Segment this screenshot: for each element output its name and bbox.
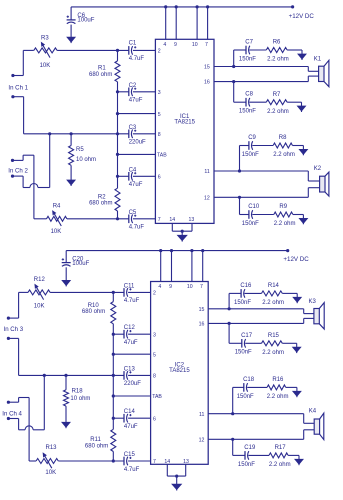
speaker K2 (320, 176, 325, 192)
pin 9 (IC1) (175, 7, 177, 39)
wire: C10 to R9 (252, 214, 273, 216)
wire: IC1 pin 16 to speaker K1 (214, 81, 308, 83)
svg-text:2.2 ohm: 2.2 ohm (262, 300, 284, 306)
node: rail junction pin4 (IC1) (164, 5, 167, 8)
terminal: In Ch 1 bottom (11, 95, 14, 98)
svg-text:R14: R14 (268, 283, 280, 289)
wire: IC2 pins 14,13 to ground (166, 464, 168, 476)
svg-text:8: 8 (153, 374, 156, 380)
svg-text:4.7uF: 4.7uF (124, 298, 140, 304)
wire: IC1 pin 15 to speaker K1 (214, 66, 308, 68)
svg-text:R17: R17 (275, 445, 287, 451)
node: bus junction C12 row (112, 333, 115, 336)
wire: K4 jog top (303, 414, 305, 424)
ground (C20) (62, 281, 70, 286)
wire: C18 branch (233, 386, 245, 388)
node: pin15/C7 junction (232, 65, 235, 68)
ground (R7) (298, 106, 306, 111)
wire: bus to IC1 pin 5 (118, 113, 156, 115)
ground (IC1) (178, 235, 187, 240)
svg-text:C12: C12 (124, 325, 136, 331)
wire: feedback bus (R1 to R2) (117, 82, 119, 188)
svg-text:680 ohm: 680 ohm (82, 309, 105, 315)
wire: C8 to R7 (249, 101, 266, 103)
svg-text:150nF: 150nF (234, 300, 251, 306)
capacitor C15 4.7uF (123, 457, 125, 466)
wire: In Ch 3 bottom to ground bus row (8, 337, 18, 339)
ground (R18) (62, 422, 70, 427)
wire: bus to IC2 TAB (113, 395, 150, 397)
wire: R6 to ground (287, 49, 302, 51)
resistor R8 2.2 ohm (273, 143, 292, 148)
svg-text:R5: R5 (76, 147, 84, 153)
svg-text:7: 7 (205, 42, 208, 48)
capacitor C14 47uF (123, 414, 125, 423)
wire: C12 row (113, 333, 124, 335)
wire: bus to IC1 TAB (118, 153, 156, 155)
resistor R5 10 ohm (70, 134, 72, 146)
svg-text:150nF: 150nF (242, 221, 259, 227)
terminal: In Ch 1 top (11, 74, 14, 77)
wire: C16 to R14 (245, 292, 262, 294)
node: bus junction pin5 row (IC2) (112, 353, 115, 356)
svg-text:TAB: TAB (157, 153, 167, 159)
svg-text:10K: 10K (40, 63, 51, 69)
wire: K1 jog bottom (307, 76, 309, 82)
capacitor C2 47uF (128, 88, 130, 97)
svg-text:TA8215: TA8215 (169, 368, 190, 374)
wire: R4 row to C5 (67, 218, 129, 220)
svg-text:15: 15 (204, 65, 210, 71)
potentiometer R12 10K (28, 290, 50, 295)
svg-text:3: 3 (153, 332, 156, 338)
resistor R1 680 ohm (117, 50, 119, 61)
capacitor C18 150nF (243, 383, 245, 392)
wire: R15 to ground (282, 342, 296, 344)
svg-text:100uF: 100uF (72, 261, 89, 267)
ground (C6) (67, 37, 75, 42)
node: rail junction pin10 (IC2) (190, 249, 193, 252)
svg-text:2.2 ohm: 2.2 ohm (267, 109, 289, 115)
wire: R14 to ground (282, 292, 297, 294)
pin 4 (IC1) (165, 7, 167, 39)
wire: R18 to ground (65, 406, 67, 422)
node: In Ch 4 return junction (43, 374, 46, 377)
svg-text:16: 16 (199, 322, 205, 328)
wire: R13 row to C15 (58, 460, 124, 462)
wire: junction up to C9 branch (239, 146, 241, 172)
svg-text:5: 5 (153, 352, 156, 358)
wire: C5 to IC1 pin 7 (133, 218, 156, 220)
wire: IC1 pins 14,13 to ground (171, 223, 173, 231)
svg-text:R4: R4 (53, 203, 61, 209)
wire: C20 to ground (65, 267, 67, 280)
svg-text:4.7uF: 4.7uF (129, 225, 145, 231)
wire: In Ch 4 signal to R13 (8, 401, 18, 403)
wire: C6 to ground (70, 25, 72, 38)
svg-text:+12V DC: +12V DC (289, 13, 315, 20)
potentiometer R4 10K (34, 218, 47, 220)
potentiometer R13 10K (29, 460, 36, 462)
svg-text:4.7uF: 4.7uF (124, 467, 140, 473)
wire: C17 branch (229, 342, 242, 344)
svg-text:10K: 10K (34, 304, 45, 310)
svg-text:C2: C2 (129, 83, 137, 89)
node: bus junction C15 row (112, 459, 115, 462)
svg-text:C17: C17 (241, 333, 253, 339)
svg-text:8: 8 (158, 132, 161, 138)
svg-text:C1: C1 (129, 41, 137, 47)
svg-text:In Ch 2: In Ch 2 (8, 167, 28, 174)
node: bus junction C13 row (112, 374, 115, 377)
svg-text:2: 2 (158, 49, 161, 55)
node: rail junction pin7 (IC1) (206, 5, 209, 8)
svg-text:K2: K2 (314, 166, 322, 172)
wire: C9 to R8 (252, 145, 273, 147)
node: IC2 ground bar (175, 475, 178, 478)
svg-text:R16: R16 (272, 377, 284, 383)
node: +12V terminal (top) (291, 5, 294, 8)
pin 10 (IC1) (196, 7, 198, 39)
svg-text:R1: R1 (98, 65, 106, 71)
svg-text:10: 10 (187, 284, 193, 290)
ground (R16) (293, 391, 301, 396)
wire: C14 row (113, 417, 124, 419)
svg-text:TAB: TAB (152, 394, 162, 400)
node: rail junction pin10 (IC1) (196, 5, 199, 8)
wire: C2 row (118, 91, 129, 93)
wire: R17 to ground (288, 454, 299, 456)
wire: C15 to IC2 pin 7 (128, 460, 151, 462)
node: R18 junction (64, 374, 67, 377)
capacitor C9 150nF (248, 141, 250, 150)
wire: In Ch 3 to R12 (8, 317, 18, 319)
svg-text:C9: C9 (248, 135, 256, 141)
capacitor C12 47uF (123, 330, 125, 339)
wire: +12V DC power rail (bottom) (66, 250, 288, 252)
ground (IC2) (172, 484, 181, 489)
svg-text:+12V DC: +12V DC (283, 256, 309, 263)
svg-text:C19: C19 (244, 445, 256, 451)
svg-text:C8: C8 (245, 92, 253, 98)
svg-text:C11: C11 (124, 283, 135, 289)
wire: C9 branch (240, 145, 250, 147)
svg-text:In Ch 1: In Ch 1 (8, 85, 28, 92)
ground (R5) (67, 180, 75, 185)
capacitor C10 150nF (248, 210, 250, 219)
wire: C4 row (118, 175, 129, 177)
wire: IC2 pin 11 to speaker K4 (208, 413, 304, 415)
wire: feedback bus (R10 to R11) (112, 324, 114, 430)
resistor R6 2.2 ohm (266, 48, 287, 53)
svg-text:C13: C13 (124, 366, 136, 372)
capacitor C16 150nF (240, 289, 242, 298)
svg-text:6: 6 (153, 416, 156, 422)
svg-text:11: 11 (204, 169, 209, 175)
svg-text:C18: C18 (243, 377, 255, 383)
capacitor C19 150nF (244, 451, 246, 460)
svg-text:2.2 ohm: 2.2 ohm (267, 57, 289, 63)
wire: junction down to C10 branch (239, 197, 241, 214)
svg-text:150nF: 150nF (235, 350, 252, 356)
svg-text:R7: R7 (273, 92, 281, 98)
svg-text:C4: C4 (129, 167, 137, 173)
node: rail junction pin9 (IC2) (170, 249, 173, 252)
wire: K3 jog top (303, 309, 305, 314)
wire: In Ch 2 return with crossover hop (13, 175, 24, 177)
svg-text:C5: C5 (129, 210, 137, 216)
svg-text:10: 10 (192, 42, 198, 48)
svg-text:K4: K4 (309, 409, 317, 415)
resistor R14 2.2 ohm (262, 291, 283, 296)
svg-text:150nF: 150nF (238, 462, 255, 468)
svg-text:13: 13 (183, 459, 189, 465)
node: R5 junction (70, 132, 73, 135)
node: bus junction C3 row (116, 132, 119, 135)
node: pin12/C10 junction (238, 196, 241, 199)
wire: junction down to C17 branch (228, 323, 230, 343)
wire: junction up to C7 branch (233, 50, 235, 67)
terminal: In Ch 2 top (11, 159, 14, 162)
capacitor C8 150nF (245, 98, 247, 107)
svg-text:2.2 ohm: 2.2 ohm (262, 350, 284, 356)
svg-text:10K: 10K (45, 470, 56, 476)
node: junction R1 top / pin2 row (116, 49, 119, 52)
wire: K2 jog bottom (307, 188, 309, 198)
svg-text:R6: R6 (273, 40, 281, 46)
svg-text:R8: R8 (279, 135, 287, 141)
capacitor C5 4.7uF (128, 215, 130, 224)
svg-text:47uF: 47uF (124, 340, 138, 346)
svg-text:10 ohm: 10 ohm (70, 396, 90, 402)
wire: C10 branch (240, 214, 250, 216)
wire: In Ch 4 return with crossover hop (8, 418, 18, 420)
svg-text:7: 7 (200, 284, 203, 290)
ground (R17) (295, 459, 303, 464)
svg-text:2.2 ohm: 2.2 ohm (273, 152, 295, 158)
svg-text:R12: R12 (34, 277, 46, 283)
wire: junction up to C16 branch (228, 293, 230, 308)
ground (R6) (298, 54, 306, 59)
svg-text:R9: R9 (279, 204, 287, 210)
wire: C13 to IC2 pin 8 (128, 374, 151, 376)
resistor R7 2.2 ohm (266, 100, 287, 105)
capacitor C11 4.7uF (123, 288, 125, 297)
resistor R15 2.2 ohm (262, 341, 283, 346)
svg-text:C7: C7 (245, 40, 253, 46)
wire: bus to IC2 pin 5 (113, 353, 150, 355)
terminal: In Ch 3 top (7, 317, 10, 320)
svg-text:R15: R15 (268, 333, 280, 339)
wire: C11 to IC2 pin 2 (128, 291, 151, 293)
node: +12V terminal (bottom) (286, 249, 289, 252)
terminal: In Ch 3 bottom (7, 337, 10, 340)
wire: junction up to C18 branch (232, 387, 234, 413)
svg-text:680 ohm: 680 ohm (85, 443, 108, 449)
svg-text:C16: C16 (240, 283, 252, 289)
ground (R15) (293, 347, 301, 352)
svg-text:R13: R13 (46, 445, 58, 451)
wire: K2 jog top (307, 171, 309, 181)
svg-text:150nF: 150nF (242, 152, 259, 158)
capacitor C20 100uF (65, 251, 67, 263)
svg-text:680 ohm: 680 ohm (89, 72, 112, 78)
svg-text:4: 4 (163, 42, 166, 48)
terminal: In Ch 4 top (7, 401, 10, 404)
wire: C1 to IC1 pin 2 (133, 49, 156, 51)
capacitor C1 4.7uF (128, 46, 130, 55)
svg-text:47uF: 47uF (129, 182, 143, 188)
svg-text:100uF: 100uF (77, 18, 94, 24)
node: bus junction C14 row (112, 417, 115, 420)
node: pin11/C9 junction (238, 169, 241, 172)
node: pin15/C16 junction (228, 307, 231, 310)
ground (R9) (300, 219, 308, 224)
op-amp IC2 TA8215 (151, 282, 209, 465)
resistor R18 10 ohm (65, 375, 67, 389)
pin 4 (IC2) (160, 251, 162, 282)
svg-text:7: 7 (153, 459, 156, 465)
svg-text:2: 2 (153, 291, 156, 297)
capacitor C3 220uF (128, 130, 130, 139)
svg-text:C3: C3 (129, 125, 137, 131)
svg-text:R18: R18 (72, 389, 84, 395)
wire: IC2 pin 16 to speaker K3 (208, 322, 304, 324)
wire: junction down to C19 branch (232, 439, 234, 455)
wire: R12 wiper row to C11 (50, 291, 124, 293)
node: bus junction C5 row (116, 217, 119, 220)
wire: R9 to ground (293, 214, 304, 216)
svg-text:In Ch 4: In Ch 4 (2, 411, 22, 418)
svg-text:6: 6 (158, 175, 161, 181)
node: rail junction pin9 (IC1) (175, 5, 178, 8)
wire: ground reference row (top half) to C3 (24, 133, 129, 135)
wire: IC2 pin 12 to speaker K4 (208, 438, 304, 440)
svg-text:13: 13 (189, 217, 195, 223)
node: bus junction TAB row (116, 153, 119, 156)
wire: C19 branch (233, 454, 246, 456)
speaker K4 (314, 419, 319, 434)
capacitor C17 150nF (241, 339, 243, 348)
node: IC1 ground bar (181, 230, 184, 233)
svg-text:150nF: 150nF (239, 109, 256, 115)
wire: ground reference row (bottom half) to C13 (19, 374, 124, 376)
svg-text:14: 14 (164, 459, 170, 465)
wire: C2 to IC1 pin 3 (133, 91, 156, 93)
svg-text:2.2 ohm: 2.2 ohm (267, 394, 289, 400)
capacitor C4 47uF (128, 172, 130, 181)
resistor R17 2.2 ohm (269, 453, 288, 458)
svg-text:9: 9 (169, 284, 172, 290)
speaker K1 (319, 66, 324, 81)
capacitor C13 220uF (123, 371, 125, 380)
ground (R14) (293, 297, 301, 302)
wire: +12V DC power rail (top) (71, 6, 293, 8)
resistor R16 2.2 ohm (267, 385, 286, 390)
pin 7 top (IC2) (202, 251, 204, 282)
speaker K3 (314, 309, 319, 324)
wire: C3 to IC1 pin 8 (133, 133, 156, 135)
terminal: In Ch 4 bottom (7, 417, 10, 420)
svg-text:K1: K1 (314, 56, 322, 62)
wire: C17 to R15 (245, 342, 261, 344)
node: pin16/C17 junction (228, 322, 231, 325)
svg-text:220uF: 220uF (124, 381, 141, 387)
wire: C18 to R16 (247, 386, 267, 388)
svg-text:150nF: 150nF (237, 394, 254, 400)
resistor R10 680 ohm (112, 292, 114, 301)
svg-text:11: 11 (199, 412, 204, 418)
wire: K4 jog bottom (303, 430, 305, 440)
svg-text:C10: C10 (248, 204, 260, 210)
pin 7 top (IC1) (207, 7, 209, 39)
node: bus junction pin5 row (116, 112, 119, 115)
svg-text:15: 15 (199, 307, 205, 313)
node: junction R10 top / pin2 row (112, 291, 115, 294)
wire: C7 branch (234, 49, 247, 51)
wire: C16 branch (229, 292, 241, 294)
capacitor C7 150nF (245, 46, 247, 55)
wire: In Ch 1 bottom to ground bus row (13, 96, 24, 98)
svg-text:2.2 ohm: 2.2 ohm (269, 462, 291, 468)
wire: R7 to ground (287, 101, 301, 103)
svg-text:12: 12 (199, 437, 205, 443)
wire: C19 to R17 (248, 454, 269, 456)
svg-text:47uF: 47uF (129, 98, 143, 104)
potentiometer R3 10K (34, 48, 57, 53)
wire: In Ch 2 signal to R4 (13, 159, 24, 161)
svg-text:C15: C15 (124, 452, 136, 458)
svg-text:9: 9 (174, 42, 177, 48)
wire: C8 branch (234, 101, 247, 103)
node: bus junction TAB row (IC2) (112, 394, 115, 397)
wire: R8 to ground (293, 145, 304, 147)
svg-text:16: 16 (204, 80, 210, 86)
svg-text:R11: R11 (90, 437, 101, 443)
node: pin11/C18 junction (231, 412, 234, 415)
svg-text:220uF: 220uF (129, 140, 146, 146)
wire: R5 to ground (70, 165, 72, 180)
node: bus junction C4 row (116, 175, 119, 178)
node: pin16/C8 junction (232, 80, 235, 83)
wire: C12 to IC2 pin 3 (128, 333, 151, 335)
wire: R16 to ground (286, 386, 297, 388)
wire: junction down to C8 branch (233, 82, 235, 103)
svg-text:K3: K3 (309, 299, 317, 305)
resistor R9 2.2 ohm (274, 212, 293, 217)
wire: C7 to R6 (249, 49, 266, 51)
svg-text:In Ch 3: In Ch 3 (4, 326, 24, 333)
wire: IC1 pin 11 to speaker K2 (214, 170, 308, 172)
wire: K3 jog bottom (303, 318, 305, 323)
svg-text:5: 5 (158, 112, 161, 118)
svg-text:3: 3 (158, 90, 161, 96)
op-amp IC1 TA8215 (155, 39, 214, 223)
svg-text:10 ohm: 10 ohm (76, 157, 96, 163)
svg-text:C14: C14 (124, 409, 136, 415)
wire: IC2 pin 15 to speaker K3 (208, 308, 304, 310)
svg-text:7: 7 (158, 217, 161, 223)
wire: IC1 pin 12 to speaker K2 (214, 196, 308, 198)
node: rail junction pin7 (IC2) (201, 249, 204, 252)
pin 9 (IC2) (171, 251, 173, 282)
svg-text:14: 14 (169, 217, 175, 223)
svg-text:150nF: 150nF (239, 56, 256, 62)
svg-text:TA8215: TA8215 (174, 120, 195, 126)
svg-text:47uF: 47uF (124, 424, 138, 430)
svg-text:4: 4 (158, 284, 161, 290)
ground (R8) (300, 150, 308, 155)
